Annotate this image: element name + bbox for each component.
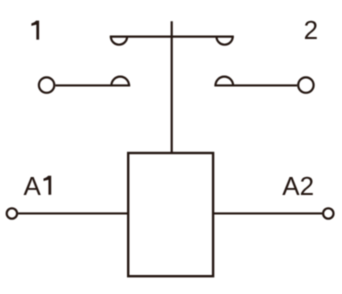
- svg-text:A: A: [24, 171, 42, 201]
- svg-text:A2: A2: [282, 171, 314, 201]
- svg-text:2: 2: [304, 15, 318, 45]
